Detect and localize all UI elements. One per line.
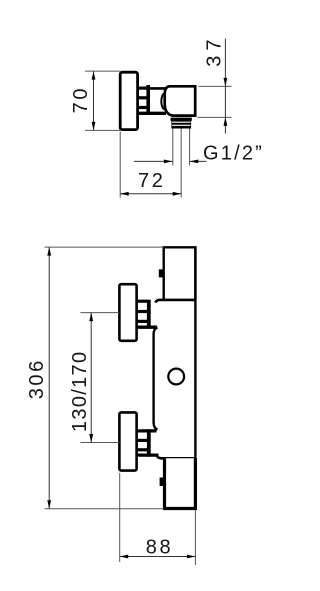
- bar body top section: [164, 247, 196, 299]
- svg-text:130/170: 130/170: [69, 351, 91, 432]
- top connector long bar: [137, 326, 157, 329]
- dimension 72: [120, 132, 181, 198]
- svg-text:306: 306: [26, 358, 48, 399]
- union nut spine: [146, 85, 150, 115]
- G1/2 leader with arrows: [134, 160, 207, 164]
- bottom connector thread bars: [137, 431, 157, 450]
- bar right edge: [194, 247, 196, 508]
- svg-text:72: 72: [138, 170, 165, 192]
- svg-text:70: 70: [70, 86, 92, 113]
- top connector escutcheon: [119, 284, 136, 341]
- dimension 70: [70, 71, 121, 130]
- handle arc: [161, 93, 165, 109]
- top connector thread bars: [137, 301, 148, 321]
- step line bottom: [157, 455, 196, 458]
- svg-text:G1/2”: G1/2”: [203, 142, 264, 164]
- dimension 130/170: [69, 313, 119, 443]
- dimension 306: [26, 247, 164, 509]
- screw top: [159, 269, 164, 277]
- dimension 37: [198, 35, 232, 134]
- valve body: [165, 86, 196, 115]
- svg-text:37: 37: [204, 35, 226, 67]
- bottom connector escutcheon: [119, 412, 136, 470]
- temperature knob circle: [168, 369, 184, 385]
- escutcheon (wall flange, side view): [120, 72, 137, 129]
- outlet pipe edge lines: [173, 129, 190, 166]
- dimension 88: [120, 473, 196, 565]
- column top line: [148, 87, 166, 90]
- long bottom bar: [137, 112, 166, 115]
- screw bottom: [160, 478, 165, 487]
- bottom connector spine: [147, 429, 151, 456]
- housing left edge (middle section): [154, 327, 158, 429]
- thread bars between flange and union nut: [137, 88, 148, 107]
- bar body bottom section: [165, 458, 196, 508]
- svg-text:88: 88: [146, 537, 173, 559]
- bottom connector long bar: [137, 454, 159, 457]
- step line top: [155, 300, 195, 303]
- outlet nut (threaded): [171, 118, 192, 129]
- outlet centerline: [180, 129, 182, 198]
- top connector spine: [147, 300, 151, 327]
